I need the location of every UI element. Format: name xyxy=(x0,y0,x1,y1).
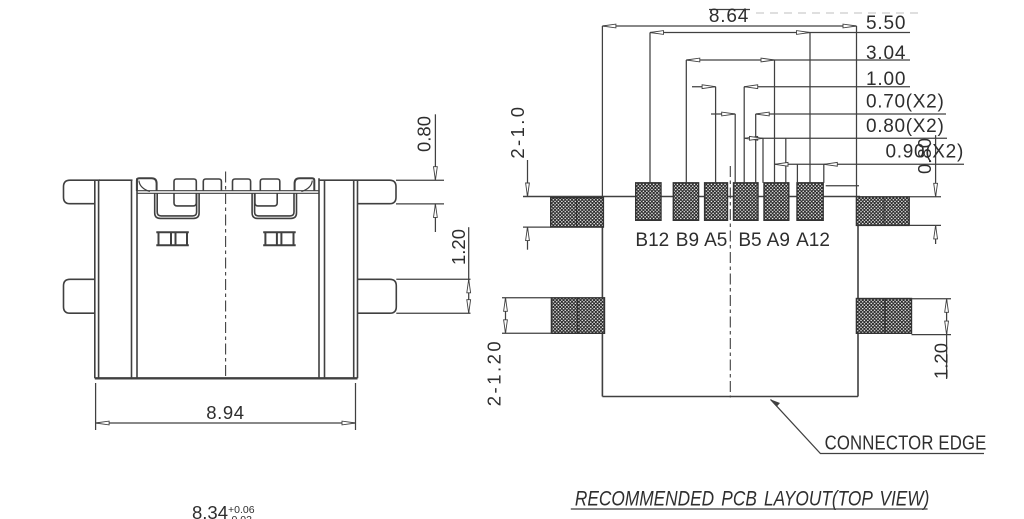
svg-text:A9: A9 xyxy=(767,230,790,251)
svg-text:1.20: 1.20 xyxy=(931,343,952,379)
svg-text:5.50: 5.50 xyxy=(866,13,906,34)
svg-text:-0.02: -0.02 xyxy=(228,514,252,519)
svg-text:0.80: 0.80 xyxy=(414,116,435,152)
svg-text:8.34: 8.34 xyxy=(192,502,228,519)
svg-text:0.80(X2): 0.80(X2) xyxy=(866,116,944,137)
svg-text:3.04: 3.04 xyxy=(866,43,906,64)
svg-text:8.64: 8.64 xyxy=(709,6,749,27)
svg-text:8.94: 8.94 xyxy=(206,402,244,423)
svg-text:B5: B5 xyxy=(738,230,761,251)
svg-text:B9: B9 xyxy=(676,230,699,251)
svg-text:2-1.0: 2-1.0 xyxy=(507,105,528,159)
svg-text:0.70(X2): 0.70(X2) xyxy=(866,92,944,113)
svg-text:CONNECTOR EDGE: CONNECTOR EDGE xyxy=(825,431,987,454)
svg-text:B12: B12 xyxy=(635,230,669,251)
svg-text:0.80: 0.80 xyxy=(914,138,935,174)
svg-text:1.20: 1.20 xyxy=(448,229,469,265)
svg-text:A5: A5 xyxy=(704,230,727,251)
svg-text:RECOMMENDED PCB LAYOUT(TOP VIE: RECOMMENDED PCB LAYOUT(TOP VIEW) xyxy=(575,487,929,511)
svg-text:2-1.20: 2-1.20 xyxy=(484,339,505,406)
svg-text:A12: A12 xyxy=(796,230,830,251)
svg-text:1.00: 1.00 xyxy=(866,69,906,90)
